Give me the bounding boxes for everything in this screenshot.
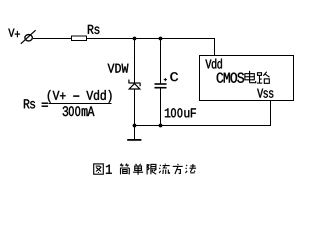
junction dot zener / top rail — [133, 37, 137, 41]
formula Rs equals — [24, 99, 48, 108]
junction dot capacitor / bottom rail — [159, 124, 163, 128]
zener diode VDW — [129, 80, 141, 90]
formula denominator 300mA — [63, 106, 95, 116]
resistor Rs — [72, 36, 87, 41]
wire resistor to corner of top rail — [87, 38, 216, 40]
formula numerator (V+ - Vdd) — [48, 90, 112, 103]
pin label Vss — [257, 89, 273, 98]
label Rs — [88, 25, 100, 34]
formula fraction bar — [49, 103, 112, 105]
wire V+ to resistor Rs — [33, 38, 72, 40]
caption CJK glyph jian (simple) — [120, 164, 129, 175]
wire capacitor branch lower — [160, 89, 162, 127]
capacitor C plates — [155, 84, 167, 88]
label 100uF — [165, 108, 196, 117]
CJK glyph dian (electric) of CMOS circuit — [245, 71, 256, 83]
CJK glyph lu (road) of CMOS circuit — [257, 72, 270, 84]
label VDW — [108, 64, 129, 73]
label C — [170, 72, 178, 81]
caption CJK glyph fang (method pt1) — [173, 164, 183, 174]
CMOS circuit box U1 — [200, 56, 294, 101]
wire corner down to CMOS box Vdd pin — [214, 38, 216, 56]
junction dot capacitor / top rail — [159, 37, 163, 41]
label CMOS (CMOS circuit) — [217, 73, 244, 83]
pin label Vdd — [205, 59, 221, 69]
wire zener branch lower — [134, 89, 136, 126]
caption label 1 — [106, 165, 112, 174]
wire bottom rail — [134, 125, 271, 127]
wire zener branch upper — [134, 38, 136, 83]
node V+ terminal circle — [21, 30, 36, 44]
caption CJK glyph fa (method pt2) — [186, 164, 197, 173]
caption CJK glyph xian (limit) — [147, 164, 156, 174]
caption CJK glyph tu (figure) — [94, 164, 104, 174]
caption CJK glyph dan (single) — [133, 164, 143, 175]
wire Vss pin down — [270, 101, 272, 127]
node V+ terminal label — [8, 29, 20, 37]
wire capacitor branch upper — [160, 38, 162, 84]
capacitor C plus polarity mark — [164, 78, 167, 81]
caption CJK glyph liu (flow) — [159, 164, 170, 174]
junction dot zener / bottom rail — [133, 124, 137, 128]
ground — [127, 125, 141, 140]
